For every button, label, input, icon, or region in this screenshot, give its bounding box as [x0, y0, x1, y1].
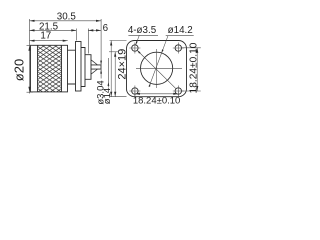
svg-text:24×19: 24×19 — [117, 49, 129, 80]
dim line 30.5 — [30, 20, 102, 22]
dim line 17 — [30, 40, 68, 42]
nut back rim line — [61, 45, 63, 92]
knurl texture — [38, 46, 61, 92]
arrow 17 left — [30, 40, 35, 42]
circle vertical centerline — [156, 49, 158, 88]
bottom dim line 18.24 — [135, 93, 178, 95]
arrow hole diagonal — [137, 51, 140, 54]
leader 4-dia3.5 — [136, 35, 140, 45]
leader shoulder under 4-dia3.5 — [128, 34, 158, 36]
dim line 6 — [88, 29, 101, 31]
arrow 6 right — [96, 29, 101, 31]
arrow 18.24 right bottom — [196, 86, 198, 91]
arrow dia3.04 — [100, 61, 102, 65]
svg-text:ø20: ø20 — [11, 59, 26, 81]
coupling nut body (side view) — [31, 45, 68, 92]
center pin — [91, 65, 101, 69]
svg-text:17: 17 — [40, 30, 51, 41]
arrow leader dia14.2 — [149, 83, 151, 87]
arrow 18.24 right top — [196, 48, 198, 53]
arrow 19 bottom — [114, 92, 116, 97]
arrow 18.24 bottom left — [135, 93, 140, 95]
svg-text:18.24±0.10: 18.24±0.10 — [133, 96, 180, 107]
flange plate face — [127, 41, 187, 97]
arrow 19 top — [114, 52, 116, 57]
arrow 17 right — [63, 40, 68, 42]
central circle dia14.2 — [141, 52, 173, 84]
nut bottom corner tick — [27, 91, 34, 93]
arrow 6 left — [88, 29, 93, 31]
svg-text:30.5: 30.5 — [57, 11, 77, 22]
arrow 24 bottom — [110, 92, 112, 97]
rear cylinder — [85, 55, 91, 80]
flange plate edge-on — [76, 42, 82, 92]
hole diagonal line — [137, 51, 176, 89]
arrow dia20 top — [28, 46, 30, 51]
hole crosshairs — [129, 43, 140, 54]
svg-text:18.24±0.10: 18.24±0.10 — [188, 42, 199, 93]
arrow 24 top — [110, 41, 112, 46]
ext line flange bottom to 24 dim — [110, 96, 127, 98]
dim line 24 — [110, 41, 112, 97]
leader phi14 — [107, 58, 109, 88]
svg-text:ø14.2: ø14.2 — [168, 25, 193, 36]
dim line 19 — [114, 52, 116, 97]
svg-text:4-ø3.5: 4-ø3.5 — [128, 25, 157, 36]
bottom ext lines — [134, 92, 136, 96]
insulator taper — [91, 60, 98, 74]
arrow 30.5 left — [30, 20, 35, 22]
dim line 21.5 — [30, 29, 77, 31]
left extension/dim line — [29, 19, 31, 94]
right extension line (pin tip) — [100, 19, 102, 79]
bolt hole top-left — [132, 45, 138, 51]
svg-text:6: 6 — [103, 23, 109, 34]
extension line for 6 — [87, 29, 89, 54]
bolt hole bottom-left — [132, 88, 138, 94]
bolt hole top-right — [175, 45, 181, 51]
leader shoulder under dia14.2 — [166, 35, 194, 37]
right ext lines — [182, 47, 201, 49]
arrow dia14 — [108, 82, 110, 86]
arrow 18.24 bottom right — [173, 93, 178, 95]
right dim line 18.24 — [196, 48, 198, 91]
arrow dia14.2 at circle top edge — [162, 49, 164, 53]
circle horizontal centerline — [136, 67, 182, 69]
extension line at flange front — [75, 29, 77, 41]
nut front rim line — [37, 45, 39, 92]
rear collar — [81, 48, 85, 87]
arrow dia20 bottom — [28, 87, 30, 92]
arrow 30.5 right — [96, 20, 101, 22]
ext line circle top for 19 dim — [109, 51, 119, 53]
bolt hole bottom-right — [175, 88, 181, 94]
arrow leader 4-dia3.5 — [136, 41, 138, 45]
nut top corner tick — [27, 44, 34, 46]
neck between nut and flange — [68, 50, 76, 84]
leader dia14.2 through circle — [149, 36, 168, 87]
arrow 21.5 right — [71, 29, 76, 31]
arrow 21.5 left — [30, 29, 35, 31]
ext line flange top to 24 dim — [110, 40, 127, 42]
